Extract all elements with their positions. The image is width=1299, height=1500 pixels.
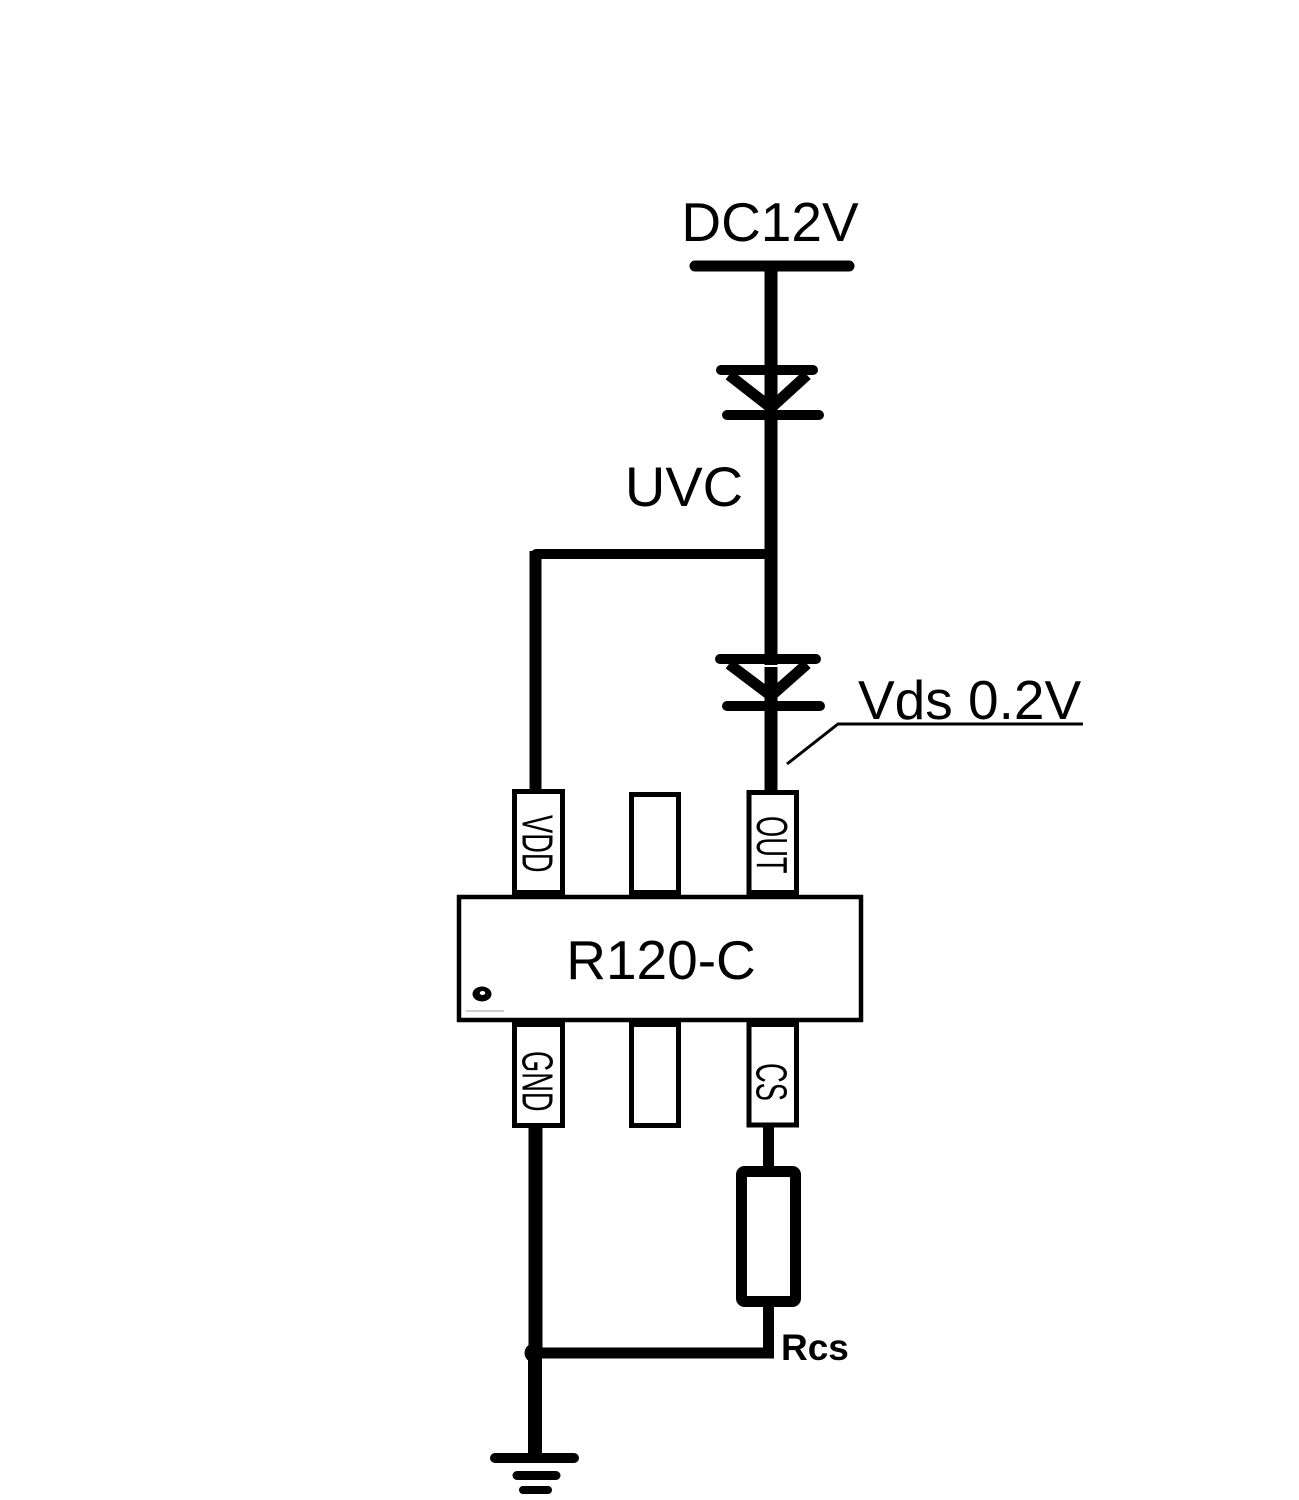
diode D2	[720, 659, 820, 706]
svg-text:GND: GND	[513, 1051, 562, 1112]
svg-text:DC12V: DC12V	[681, 191, 859, 253]
wire GND pin to bottom node	[529, 1126, 543, 1353]
svg-text:OUT: OUT	[747, 816, 796, 874]
wire D2 through triangle to OUT pin	[765, 667, 778, 792]
IC U1 R120-C body	[459, 897, 861, 1020]
svg-text:VDD: VDD	[513, 815, 562, 873]
ground symbol	[495, 1458, 574, 1490]
resistor Rcs body	[742, 1172, 796, 1302]
power rail DC12V bar	[695, 261, 849, 272]
wire rail to D1 anode	[765, 266, 778, 378]
pin CS	[747, 1025, 797, 1126]
diode D1	[721, 370, 819, 415]
svg-text:R120-C: R120-C	[566, 929, 756, 991]
wire node UVC branch horizontal	[536, 549, 771, 559]
svg-text:Vds 0.2V: Vds 0.2V	[858, 669, 1082, 731]
scan artifact line	[466, 1010, 504, 1012]
wire CS pin to Rcs	[763, 1126, 774, 1171]
pin OUT	[747, 793, 796, 893]
wire D1 through triangle to node UVC	[765, 378, 778, 560]
pin NC bottom middle	[632, 1025, 679, 1126]
pin GND	[513, 1025, 563, 1126]
pin 1 indicator dot	[473, 987, 492, 1002]
pin NC top middle	[632, 795, 679, 893]
wire left branch vertical to VDD	[530, 551, 542, 792]
svg-text:Rcs: Rcs	[781, 1327, 849, 1368]
svg-text:CS: CS	[747, 1063, 796, 1101]
leader line for Vds annotation	[787, 724, 1083, 764]
pin VDD	[513, 792, 563, 893]
junction dot	[525, 1344, 544, 1363]
wire node to ground	[528, 1353, 542, 1456]
wire bottom horizontal	[534, 1348, 774, 1359]
wire Rcs to bottom horizontal	[763, 1300, 774, 1353]
wire node UVC to D2 anode	[765, 554, 778, 665]
svg-text:UVC: UVC	[625, 455, 743, 518]
